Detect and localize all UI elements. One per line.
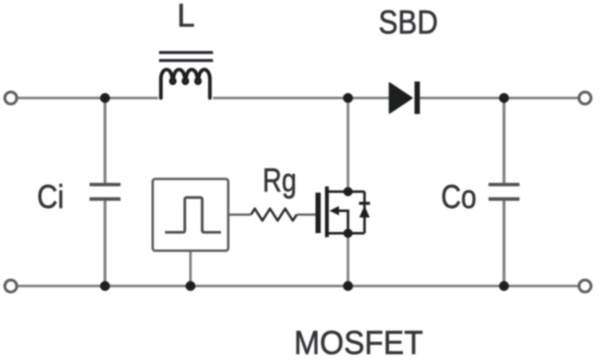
wire top rail right: diode cathode to output terminal [420, 97, 578, 100]
svg-text:Rg: Rg [263, 162, 297, 199]
wire top rail middle: inductor right to MOSFET drain node [213, 97, 390, 100]
node bottom Co [499, 281, 509, 291]
wire Ci branch upper [104, 98, 107, 183]
capacitor Ci plates [90, 185, 121, 199]
terminal input top [5, 92, 17, 104]
svg-text:MOSFET: MOSFET [294, 324, 423, 361]
node bottom Ci [100, 281, 110, 291]
svg-text:L: L [177, 0, 195, 34]
pulse generator waveform [165, 198, 221, 233]
terminal input bottom [5, 280, 17, 292]
MOSFET source connection [327, 232, 365, 235]
terminal output top [579, 92, 591, 104]
capacitor Co plates [489, 185, 520, 199]
wire Ci branch lower [104, 200, 107, 286]
MOSFET drain connection [327, 190, 365, 193]
wire MOSFET source vertical [347, 233, 350, 286]
wire bottom rail [18, 285, 579, 288]
wire Co branch lower [503, 200, 506, 286]
wire gate lead: pulse box to resistor to gate [228, 213, 251, 215]
wire MOSFET drain vertical [347, 98, 350, 191]
body diode cathode bar [359, 202, 370, 205]
wire top rail left: input terminal to node [18, 97, 159, 100]
diode SBD cathode bar [415, 82, 420, 115]
node top-right (diode cathode / Co) [499, 93, 509, 103]
MOSFET source junction dot [343, 229, 352, 238]
MOSFET body-diode branch vertical [363, 192, 366, 234]
svg-text:SBD: SBD [379, 4, 439, 41]
inductor L core bars [159, 53, 213, 61]
node top-middle (MOSFET drain / diode anode) [343, 93, 353, 103]
transistor MOSFET channel bar [325, 186, 329, 237]
inductor L coil [161, 69, 210, 98]
node bottom MOSFET source [343, 281, 353, 291]
wire pulse generator to ground [189, 251, 192, 286]
wire resistor to gate bar [297, 213, 316, 215]
wire Co branch upper [503, 98, 506, 183]
MOSFET source-sense tap with bend [336, 211, 348, 234]
resistor Rg zigzag [251, 209, 297, 221]
node top-left (Ci / input) [100, 93, 110, 103]
MOSFET substrate arrow (points left) [330, 206, 340, 215]
node bottom pulse generator [186, 281, 196, 291]
pulse generator box [153, 179, 229, 251]
svg-text:Ci: Ci [37, 178, 64, 215]
transistor MOSFET gate bar [316, 193, 321, 234]
MOSFET drain junction dot [343, 187, 352, 196]
svg-text:Co: Co [441, 178, 477, 215]
terminal output bottom [579, 280, 591, 292]
body diode triangle (points up) [359, 206, 369, 218]
diode SBD triangle [390, 83, 413, 113]
